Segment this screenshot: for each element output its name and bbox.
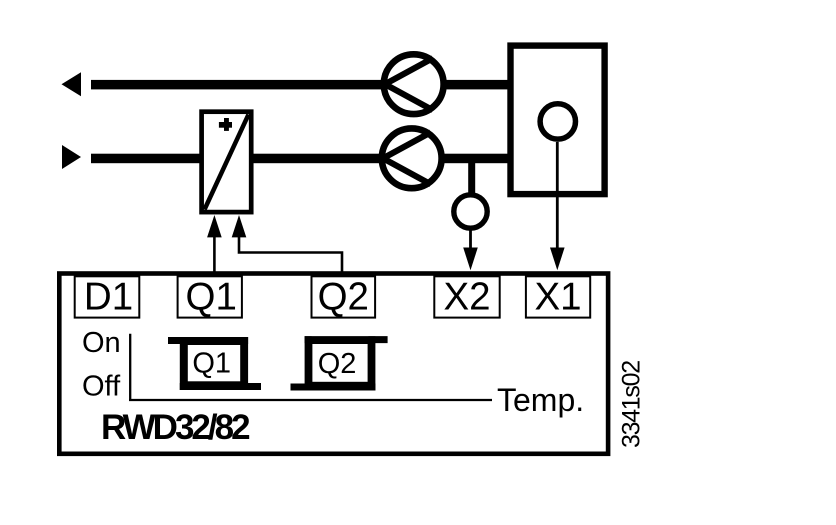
svg-text:Off: Off [82,371,121,403]
Q2 control wire [239,236,342,272]
svg-text:Q2: Q2 [318,348,357,380]
svg-text:Temp.: Temp. [497,382,584,418]
svg-text:Q1: Q1 [186,276,237,319]
terminal Q1 [178,276,242,319]
flow direction arrow left [62,72,82,96]
svg-text:X1: X1 [534,276,581,319]
X2 signal wire [469,229,472,250]
svg-text:Q1: Q1 [192,347,231,379]
diagram x-axis [129,399,492,401]
terminal D1 [75,276,140,319]
X2 signal arrowhead [463,248,478,271]
pump M1 [384,54,444,114]
svg-text:Q2: Q2 [318,276,369,319]
room sensor circle [540,104,575,139]
supply pipe (bottom) [91,154,508,164]
Q1 step symbol [168,337,261,390]
Q2 step symbol [291,336,388,390]
pipe branch to sensor [468,158,475,195]
diagram y-axis [129,334,131,400]
flow sensor circle [454,195,487,228]
svg-text:RWD32/82: RWD32/82 [101,408,250,447]
X1 signal arrowhead [550,248,565,271]
return pipe (top) [91,80,508,90]
pump M2 [382,128,442,188]
consumer room box [511,46,605,195]
flow direction arrow right [62,145,81,169]
X1 signal wire [556,142,559,250]
terminal Q2 [312,276,376,319]
Q1 control arrowhead [207,215,222,237]
controller RWD32/82 outline [59,274,608,454]
terminal X1 [526,276,590,319]
electric heater [202,112,252,212]
svg-text:On: On [82,327,121,359]
svg-text:X2: X2 [443,276,490,319]
Q1 control wire [213,236,216,272]
svg-text:D1: D1 [84,276,133,319]
terminal X2 [434,276,499,319]
Q2 control arrowhead [232,215,247,237]
svg-text:3341s02: 3341s02 [618,361,646,448]
